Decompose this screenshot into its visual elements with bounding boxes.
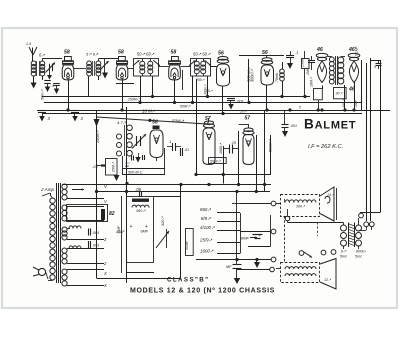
svg-text:MF: MF xyxy=(226,265,232,269)
svg-text:58: 58 xyxy=(171,50,177,56)
svg-text:X: X xyxy=(103,271,107,276)
svg-text:6↗: 6↗ xyxy=(39,53,45,58)
svg-text:BALMET: BALMET xyxy=(304,117,356,132)
svg-text:4: 4 xyxy=(374,65,376,69)
svg-text:25M↗: 25M↗ xyxy=(112,161,116,173)
svg-text:500 M.C.: 500 M.C. xyxy=(128,171,143,175)
svg-text:I.F = 262 K.C.: I.F = 262 K.C. xyxy=(308,144,343,150)
svg-text:82: 82 xyxy=(109,211,115,217)
svg-text:+: + xyxy=(130,224,133,230)
svg-text:1.4: 1.4 xyxy=(26,42,31,46)
svg-text:30↗: 30↗ xyxy=(336,92,344,96)
svg-text:6MF: 6MF xyxy=(117,225,121,233)
svg-text:46: 46 xyxy=(348,87,355,93)
svg-text:2 Amp: 2 Amp xyxy=(40,187,55,192)
svg-text:250M: 250M xyxy=(301,58,305,68)
svg-text:8↗: 8↗ xyxy=(341,250,347,254)
svg-text:50m↗: 50m↗ xyxy=(41,89,45,100)
svg-text:600m: 600m xyxy=(356,250,366,254)
svg-text:.1: .1 xyxy=(168,139,171,144)
svg-text:MODELS 12 & 120 (Nº 1200 CHASS: MODELS 12 & 120 (Nº 1200 CHASSIS xyxy=(130,288,275,295)
svg-text:300m↗: 300m↗ xyxy=(251,69,255,82)
svg-text:58: 58 xyxy=(64,50,70,56)
svg-text:50M↗: 50M↗ xyxy=(210,159,221,163)
svg-text:.25: .25 xyxy=(231,141,236,145)
svg-text:400↗: 400↗ xyxy=(342,98,346,108)
svg-text:250M↗: 250M↗ xyxy=(96,130,100,144)
svg-text:.1MF: .1MF xyxy=(306,67,310,76)
svg-text:56: 56 xyxy=(262,50,268,56)
svg-text:14↗: 14↗ xyxy=(327,193,335,197)
svg-text:.06: .06 xyxy=(135,187,142,192)
svg-text:360↗: 360↗ xyxy=(136,209,146,213)
svg-text:12↗: 12↗ xyxy=(324,278,332,282)
svg-text:10M↗: 10M↗ xyxy=(310,76,314,87)
svg-text:30↗: 30↗ xyxy=(206,89,213,93)
svg-text:.25: .25 xyxy=(92,164,98,169)
svg-text:58: 58 xyxy=(118,50,124,56)
svg-text:1000↗: 1000↗ xyxy=(219,142,223,154)
svg-text:860↗: 860↗ xyxy=(200,207,211,212)
svg-text:.001: .001 xyxy=(290,124,297,128)
svg-text:25/9↗: 25/9↗ xyxy=(199,238,213,243)
svg-text:CLASS"B": CLASS"B" xyxy=(167,277,210,284)
svg-text:5mc: 5mc xyxy=(340,255,347,259)
svg-text:.1MF: .1MF xyxy=(354,99,358,108)
svg-text:5mc: 5mc xyxy=(355,255,362,259)
svg-text:57: 57 xyxy=(245,116,251,122)
svg-text:5↗ 6↗: 5↗ 6↗ xyxy=(86,52,99,57)
svg-text:bal: bal xyxy=(125,164,129,168)
svg-text:320↗: 320↗ xyxy=(161,216,165,226)
svg-text:46: 46 xyxy=(316,47,323,53)
svg-text:8/9↗: 8/9↗ xyxy=(201,216,211,221)
svg-text:.1: .1 xyxy=(295,50,298,55)
svg-text:57: 57 xyxy=(205,116,211,122)
svg-text:50M↗: 50M↗ xyxy=(180,105,191,109)
svg-text:8MF: 8MF xyxy=(241,236,250,241)
svg-text:500M: 500M xyxy=(185,241,189,250)
svg-text:50↗ 60↗: 50↗ 60↗ xyxy=(193,52,211,57)
svg-text:78mh: 78mh xyxy=(275,73,279,82)
svg-text:.001: .001 xyxy=(92,231,99,235)
svg-text:.01: .01 xyxy=(184,148,189,152)
svg-text:56: 56 xyxy=(218,51,224,57)
svg-text:.5: .5 xyxy=(298,106,301,110)
svg-text:6MF: 6MF xyxy=(141,230,149,234)
svg-text:4/100↗: 4/100↗ xyxy=(200,225,215,230)
svg-text:250M.C: 250M.C xyxy=(127,98,140,102)
svg-text:X: X xyxy=(103,283,107,288)
svg-text:300↗: 300↗ xyxy=(296,205,306,209)
svg-text:10↗: 10↗ xyxy=(240,110,247,114)
svg-text:0.1MF: 0.1MF xyxy=(355,45,359,56)
svg-text:10 M↗: 10 M↗ xyxy=(142,109,156,114)
svg-text:50↗ 60↗: 50↗ 60↗ xyxy=(137,52,155,57)
svg-text:1600↗: 1600↗ xyxy=(200,249,214,254)
svg-text:.001: .001 xyxy=(92,244,99,248)
svg-text:4.7↗: 4.7↗ xyxy=(117,120,127,125)
svg-text:+: + xyxy=(259,233,262,238)
